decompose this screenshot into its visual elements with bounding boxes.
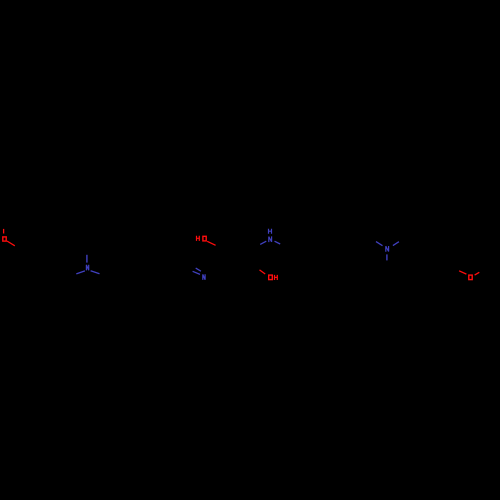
bond N4-CH3 blue half (vertical stub down): [386, 254, 388, 260]
atom label O1 (left methoxy O): [3, 237, 6, 241]
bond O1-CH3 red half (left methoxy, vertical stub): [3, 229, 5, 234]
label H of OH: [275, 275, 278, 280]
bond N1-chain blue half (down-right): [91, 271, 100, 274]
bond N1-chain blue half (down-left): [76, 271, 85, 274]
label O of HO: [203, 236, 206, 241]
atom label O4 (right methoxy O): [469, 275, 472, 280]
imine C=N double bond upper blue half: [196, 268, 201, 271]
label O of OH: [269, 275, 273, 280]
atom label N3 (secondary amine N): [269, 236, 272, 242]
bond O2-ring red half (down-right): [207, 241, 215, 245]
imine C=N double bond lower blue half: [193, 271, 200, 274]
bond N4-chain blue half (up-right): [393, 242, 399, 246]
bond O3-ring red half (phenol OH, up-left): [260, 270, 266, 274]
bond O1-ring red half (diagonal down-right): [7, 241, 15, 246]
atom label N1 (left tertiary amine N): [86, 265, 88, 271]
atom label N4 (right tertiary amine N): [386, 246, 389, 252]
bond O4-ring red half (right methoxy, up-left): [459, 271, 466, 274]
bond N1-CH3 blue half (left amine, vertical stub up): [86, 255, 88, 263]
bond N4-chain blue half (up-left): [376, 242, 383, 246]
bond N3-chain blue half (down-right): [275, 241, 281, 244]
label H of HO (phenol, top-left of central ring): [197, 236, 200, 241]
atom label N2 (imine N): [203, 274, 205, 280]
label H of NH (secondary amine H above N): [269, 229, 272, 234]
bond N3-ring blue half (down-left): [260, 241, 266, 244]
bond O4-CH3 red half (up-right): [475, 272, 480, 275]
